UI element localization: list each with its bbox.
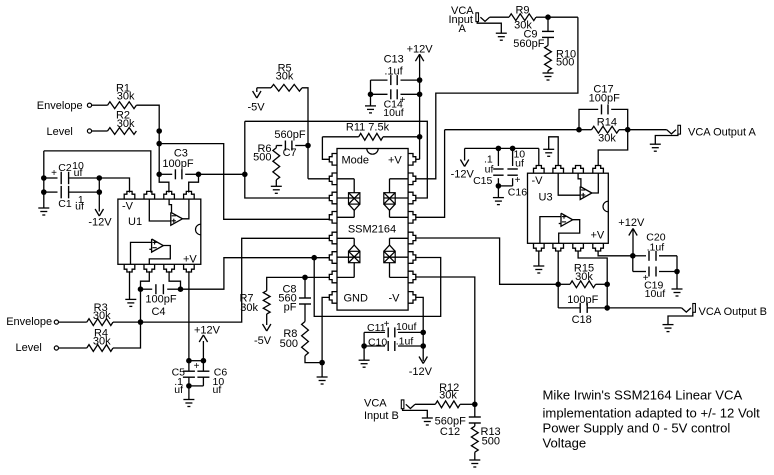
svg-text:Voltage: Voltage [543, 435, 587, 450]
svg-text:10uf: 10uf [396, 321, 417, 333]
svg-text:Level: Level [47, 126, 73, 138]
svg-text:implementation adapted to +/-: implementation adapted to +/- 12 Volt [543, 405, 761, 420]
svg-text:500: 500 [482, 435, 500, 447]
svg-text:30k: 30k [575, 271, 593, 283]
svg-text:+12V: +12V [407, 43, 434, 55]
svg-text:GND: GND [344, 293, 369, 305]
svg-text:-5V: -5V [247, 102, 265, 114]
svg-text:C18: C18 [572, 314, 592, 326]
svg-text:+: + [384, 319, 390, 330]
svg-text:100pF: 100pF [567, 294, 598, 306]
svg-text:uf: uf [75, 201, 84, 213]
svg-text:100pF: 100pF [145, 294, 176, 306]
svg-text:C10: C10 [368, 336, 387, 348]
svg-text:Envelope: Envelope [6, 316, 52, 328]
svg-text:+V: +V [388, 154, 402, 166]
svg-text:-12V: -12V [451, 168, 475, 180]
svg-text:-V: -V [389, 293, 401, 305]
svg-text:.1uf: .1uf [384, 65, 403, 77]
svg-text:+V: +V [591, 230, 605, 242]
svg-text:U3: U3 [539, 191, 553, 203]
svg-text:R11 7.5k: R11 7.5k [346, 122, 390, 134]
svg-text:C4: C4 [151, 306, 165, 318]
svg-text:500: 500 [280, 338, 298, 350]
svg-text:30k: 30k [117, 91, 135, 103]
svg-text:C12: C12 [440, 426, 460, 438]
svg-text:VCA Output A: VCA Output A [688, 127, 757, 139]
svg-text:30k: 30k [598, 132, 616, 144]
svg-text:+12V: +12V [194, 325, 221, 337]
svg-text:100pF: 100pF [589, 93, 620, 105]
svg-text:30k: 30k [439, 390, 457, 402]
svg-text:uf: uf [74, 167, 83, 179]
svg-text:100pF: 100pF [162, 158, 193, 170]
svg-text:uf: uf [485, 163, 494, 175]
svg-text:C13: C13 [384, 54, 404, 66]
svg-text:10uf: 10uf [645, 288, 666, 300]
svg-text:+V: +V [183, 253, 197, 265]
svg-text:Mode: Mode [342, 154, 370, 166]
svg-text:-12V: -12V [88, 217, 112, 229]
svg-text:uf: uf [213, 384, 222, 396]
svg-text:+: + [194, 361, 200, 372]
svg-text:C16: C16 [508, 187, 527, 199]
svg-text:.1uf: .1uf [647, 241, 665, 253]
svg-text:560pF: 560pF [513, 38, 544, 50]
svg-text:Mike Irwin's SSM2164 Linear VC: Mike Irwin's SSM2164 Linear VCA [543, 387, 743, 402]
svg-text:C1: C1 [58, 198, 72, 210]
svg-text:30k: 30k [240, 302, 258, 314]
svg-text:10uf: 10uf [383, 107, 404, 119]
svg-text:Power Supply and 0 - 5V contro: Power Supply and 0 - 5V control [543, 420, 731, 435]
svg-text:C15: C15 [473, 175, 492, 187]
svg-text:R14: R14 [597, 117, 617, 129]
svg-text:-12V: -12V [409, 366, 433, 378]
svg-text:+: + [515, 175, 521, 186]
svg-text:Input B: Input B [364, 410, 399, 422]
svg-text:VCA Output B: VCA Output B [699, 306, 767, 318]
svg-text:uf: uf [515, 157, 524, 169]
svg-text:500: 500 [556, 57, 574, 69]
svg-text:500: 500 [253, 151, 271, 163]
svg-text:A: A [459, 23, 467, 35]
svg-text:560pF: 560pF [274, 129, 305, 141]
svg-text:30k: 30k [117, 118, 135, 130]
svg-text:30k: 30k [93, 336, 111, 348]
svg-text:C2: C2 [58, 162, 72, 174]
svg-text:30k: 30k [276, 71, 294, 83]
svg-text:Envelope: Envelope [37, 100, 83, 112]
svg-text:uf: uf [174, 384, 183, 396]
svg-text:pF: pF [284, 302, 297, 314]
svg-text:C7: C7 [283, 147, 297, 159]
svg-text:-5V: -5V [254, 335, 272, 347]
svg-text:Level: Level [16, 342, 42, 354]
svg-text:30k: 30k [93, 310, 111, 322]
svg-text:-V: -V [122, 200, 134, 212]
svg-text:.1uf: .1uf [396, 336, 414, 348]
svg-text:+12V: +12V [618, 217, 645, 229]
svg-text:+: + [51, 168, 57, 179]
svg-text:-V: -V [532, 175, 544, 187]
svg-text:VCA: VCA [364, 398, 387, 410]
svg-text:U1: U1 [128, 216, 142, 228]
svg-text:SSM2164: SSM2164 [348, 223, 396, 235]
svg-text:R9: R9 [515, 4, 529, 16]
